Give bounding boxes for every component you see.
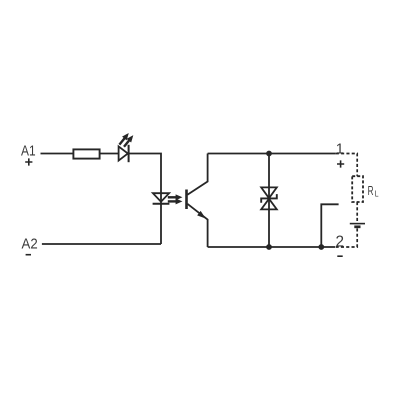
LED D1 emission arrow 1 (119, 134, 128, 145)
terminal A2 label (22, 236, 38, 252)
svg-text:A1: A1 (21, 144, 36, 160)
TVS suppressor zener bar with hooks (261, 194, 277, 203)
terminal A1 label (21, 144, 36, 160)
wire A2 line (42, 243, 161, 245)
load resistor RL dashed box (352, 176, 363, 202)
junction dot top rail (266, 151, 272, 157)
phototransistor Q1 collector (187, 154, 207, 195)
battery negative plate (354, 225, 360, 228)
wire R1 to LED D1 (101, 153, 119, 155)
terminal 2 label (336, 233, 345, 250)
svg-text:A2: A2 (22, 236, 38, 252)
dashed wire RL to battery (356, 202, 358, 222)
minus sign under A2 (26, 254, 31, 256)
phototransistor Q1 emitter arrowhead (198, 212, 205, 218)
wire LED D1 to corner and down to opto LED / A2 (129, 154, 161, 245)
junction dot bottom rail at TVS (266, 244, 272, 250)
light coupling arrow 1 (168, 195, 182, 200)
LED D1 cathode bar (128, 145, 130, 162)
phototransistor Q1 emitter (187, 204, 207, 247)
terminal 1 label (336, 142, 344, 158)
dashed external wire from terminal 1 (336, 154, 357, 177)
battery positive plate (350, 223, 365, 225)
terminal 2 internal stub wire (321, 204, 338, 247)
top output rail (208, 153, 336, 155)
label RL (368, 183, 379, 198)
plus sign under terminal 1 (337, 160, 344, 167)
phototransistor Q1 base bar (185, 190, 188, 210)
wire A1 to R1 (41, 153, 73, 155)
plus sign under A1 (25, 158, 32, 165)
LED D1 indicator diode (119, 146, 128, 160)
bottom output rail (208, 246, 335, 248)
optocoupler LED D2 cathode bar (153, 203, 170, 205)
optocoupler LED D2 (153, 193, 169, 202)
wire TVS vertical (268, 154, 270, 248)
TVS suppressor diode top triangle (261, 187, 277, 198)
light coupling arrow 2 (168, 199, 182, 204)
junction dot bottom rail at terminal 2 (318, 244, 324, 250)
minus sign under terminal 2 (337, 255, 342, 257)
dashed external wire battery to terminal 2 (335, 228, 357, 247)
LED D1 emission arrow 2 (124, 136, 133, 147)
svg-text:L: L (375, 188, 379, 198)
svg-text:1: 1 (336, 142, 344, 158)
TVS suppressor diode bottom triangle (261, 199, 277, 210)
resistor R1 (73, 149, 99, 158)
svg-text:R: R (368, 183, 374, 198)
